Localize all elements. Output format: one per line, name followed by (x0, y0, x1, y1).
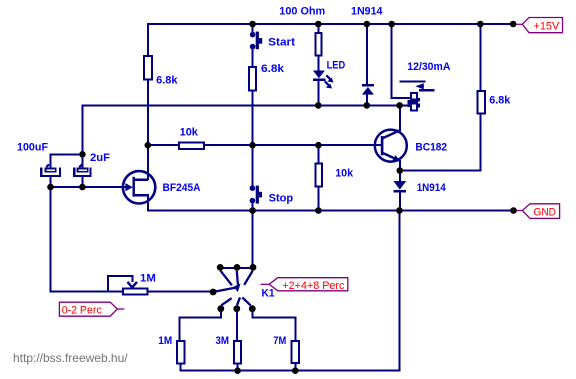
wire emitter node to right rail (400, 170, 482, 172)
junction node145 stop (249, 142, 256, 149)
resistor 1M (177, 341, 185, 364)
resistor 10k horizontal (179, 142, 204, 149)
junction rail 1N914 (364, 21, 371, 28)
wire left rail vertical top (147, 23, 149, 56)
wire 1M bottom stub (180, 364, 182, 372)
svg-text:+15V: +15V (533, 20, 560, 32)
wire left rail 6.8k to JFET drain (147, 80, 149, 180)
junction node105 LED (315, 102, 322, 109)
wire 3M bottom stub (237, 364, 239, 371)
junction rail start (249, 21, 256, 28)
junction emitter node (397, 167, 404, 174)
wire node line y105 (81, 104, 409, 106)
lamp 12/30mA (400, 82, 435, 111)
switch K1 rotary (210, 264, 257, 312)
svg-text:10k: 10k (335, 168, 354, 180)
svg-text:12/30mA: 12/30mA (407, 61, 450, 73)
flag +15V (517, 18, 563, 33)
svg-text:Start: Start (268, 37, 295, 49)
wire LED to node105 (317, 81, 319, 106)
wire start branch top (252, 24, 254, 33)
wire 100uF bottom stub (50, 177, 52, 188)
wire start to 6.8k (252, 49, 254, 67)
wire cap jog horizontal y154 (51, 153, 83, 155)
svg-text:BF245A: BF245A (163, 182, 201, 194)
resistor 3M (234, 341, 241, 364)
svg-text:10k: 10k (180, 126, 199, 138)
wire pot left lead (50, 291, 123, 293)
diode D2 1N914 bottom (393, 181, 406, 192)
svg-text:http://bss.freeweb.hu/: http://bss.freeweb.hu/ (13, 351, 128, 365)
wire 100uF top lead (50, 153, 52, 168)
junction node145 10k (315, 142, 322, 149)
wire node145 to stop (252, 145, 254, 187)
svg-text:1M: 1M (140, 272, 156, 284)
wire node145 line (148, 144, 382, 146)
wire 1N914b top lead (399, 171, 401, 182)
svg-text:2uF: 2uF (90, 152, 110, 164)
resistor 6.8k left (144, 56, 152, 80)
junction bottom rail 3M (234, 367, 241, 374)
wire pot wiper jog (108, 276, 132, 291)
wire 1N914a bottom lead (366, 94, 368, 105)
wire 10k2 bottom lead (317, 187, 319, 211)
wire 6.8k2 to node145 (252, 91, 254, 147)
junction rail right 6.8k (477, 21, 484, 28)
wire cap branch vertical x82 (81, 105, 83, 168)
svg-text:7M: 7M (273, 335, 286, 347)
flag 0-2 Perc (59, 302, 124, 316)
junction gnd 1N914 (396, 207, 403, 214)
resistor 6.8k right (477, 91, 485, 114)
junction gnd flag (510, 207, 517, 214)
wire BC182 emitter vertical (399, 160, 401, 171)
svg-text:1N914: 1N914 (351, 5, 383, 17)
flag GND (517, 204, 560, 219)
wire K1 bottom mid feed (236, 312, 238, 341)
transistor Q2 BC182 (375, 130, 407, 162)
transistor Q1 BF245A (123, 171, 155, 203)
junction rail +15V (510, 21, 517, 28)
junction node105 collector (396, 102, 403, 109)
resistor 6.8k start branch (249, 67, 256, 91)
potentiometer 1M body (123, 288, 147, 294)
wire 1N914a top lead (366, 24, 368, 85)
wire 2uF bottom stub (81, 177, 83, 188)
svg-text:GND: GND (534, 206, 557, 218)
diode D1 1N914 top (362, 84, 374, 95)
junction bottom rail 7M (292, 367, 299, 374)
wire 7M bottom stub (294, 363, 296, 370)
wire bottom right vertical (398, 211, 400, 372)
wire BC182 collector vertical (399, 105, 401, 130)
resistor 10k vertical (316, 164, 322, 187)
wire top +15V rail (147, 23, 516, 25)
flag +2+4+8 Perc (261, 278, 348, 292)
junction gate 100uF (47, 184, 54, 191)
svg-text:Stop: Stop (269, 192, 294, 204)
junction rail lamp (388, 21, 395, 28)
resistor 7M (292, 341, 300, 363)
junction gnd stop (249, 207, 256, 214)
junction node145 left (145, 142, 152, 149)
wire lamp branch from rail (392, 24, 412, 98)
wire right 6.8k bottom lead (479, 114, 481, 172)
wire 1N914b bottom lead (399, 192, 401, 211)
wire 100ohm to LED (317, 56, 319, 72)
svg-text:100uF: 100uF (17, 142, 48, 154)
svg-text:LED: LED (327, 60, 346, 72)
wire left lower vertical x50 (50, 187, 52, 293)
wire K1 top contacts bus (220, 267, 254, 269)
wire pot right lead to K1 (148, 291, 213, 293)
svg-text:K1: K1 (262, 288, 275, 300)
resistor 100 Ohm (315, 33, 321, 56)
capacitor 100uF (41, 164, 60, 176)
LED D3 (313, 71, 334, 89)
svg-text:100 Ohm: 100 Ohm (279, 5, 325, 17)
wire gate line y187 (50, 186, 127, 188)
wire 100ohm branch top (317, 24, 319, 33)
junction gate 2uF (79, 184, 86, 191)
svg-text:1N914: 1N914 (417, 182, 447, 194)
svg-text:6.8k: 6.8k (261, 63, 285, 75)
wire GND rail (147, 210, 516, 212)
switch Stop (250, 185, 262, 203)
svg-text:1M: 1M (158, 335, 172, 347)
svg-text:+2+4+8 Perc: +2+4+8 Perc (282, 280, 344, 292)
wire right 6.8k top lead (479, 24, 481, 91)
svg-text:3M: 3M (216, 335, 230, 347)
potentiometer wiper arrow (127, 282, 137, 287)
svg-text:6.8k: 6.8k (489, 94, 511, 106)
wire K1 bottom right feed (252, 312, 295, 341)
wire 10k2 top lead (317, 145, 319, 163)
junction rail 100ohm (315, 21, 322, 28)
switch Start (250, 32, 262, 50)
svg-text:6.8k: 6.8k (156, 75, 178, 87)
wire JFET source down (147, 194, 149, 212)
wire K1 feed vertical (252, 211, 254, 268)
junction cap jog (79, 151, 86, 158)
wire stop to gnd (252, 203, 254, 211)
wire bottom rail (180, 370, 401, 372)
capacitor 2uF (74, 164, 90, 176)
junction node105 1N914 (364, 102, 371, 109)
svg-text:BC182: BC182 (415, 141, 447, 153)
svg-text:0-2 Perc: 0-2 Perc (62, 305, 102, 317)
wire K1 bottom left feed (180, 312, 221, 341)
junction gnd 10k (315, 207, 322, 214)
